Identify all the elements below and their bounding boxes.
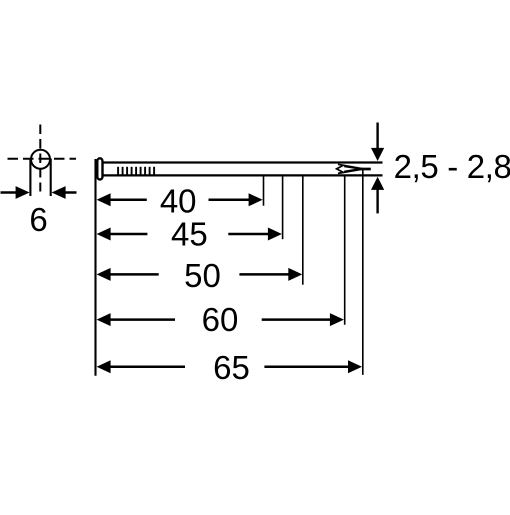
svg-text:40: 40 [160,182,197,219]
svg-text:60: 60 [202,301,239,338]
svg-text:65: 65 [213,349,250,386]
svg-text:50: 50 [184,257,221,294]
svg-text:45: 45 [171,216,208,253]
svg-text:6: 6 [29,201,47,238]
svg-text:2,5 - 2,8: 2,5 - 2,8 [394,148,510,185]
